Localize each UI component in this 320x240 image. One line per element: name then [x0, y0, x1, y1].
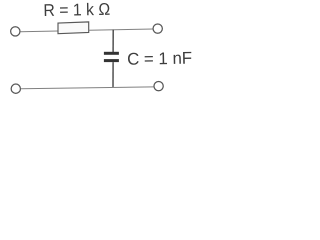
capacitor C bottom plate — [104, 59, 119, 62]
wire top-right: resistor to terminal — [89, 29, 153, 30]
terminal circle top-left — [11, 27, 20, 36]
wire: capacitor down to bottom node — [112, 62, 114, 87]
svg-text:R = 1 k Ω: R = 1 k Ω — [43, 0, 110, 20]
wire bottom: left terminal to right terminal — [21, 87, 154, 89]
wire top-left: terminal to resistor — [20, 30, 58, 33]
svg-text:C = 1 nF: C = 1 nF — [127, 49, 192, 69]
terminal circle bottom-right — [154, 81, 163, 90]
terminal circle bottom-left — [11, 84, 20, 93]
terminal circle top-right — [153, 24, 162, 33]
capacitor C top plate — [104, 52, 119, 55]
resistor R — [58, 22, 89, 34]
wire: top node down to capacitor — [112, 30, 114, 52]
